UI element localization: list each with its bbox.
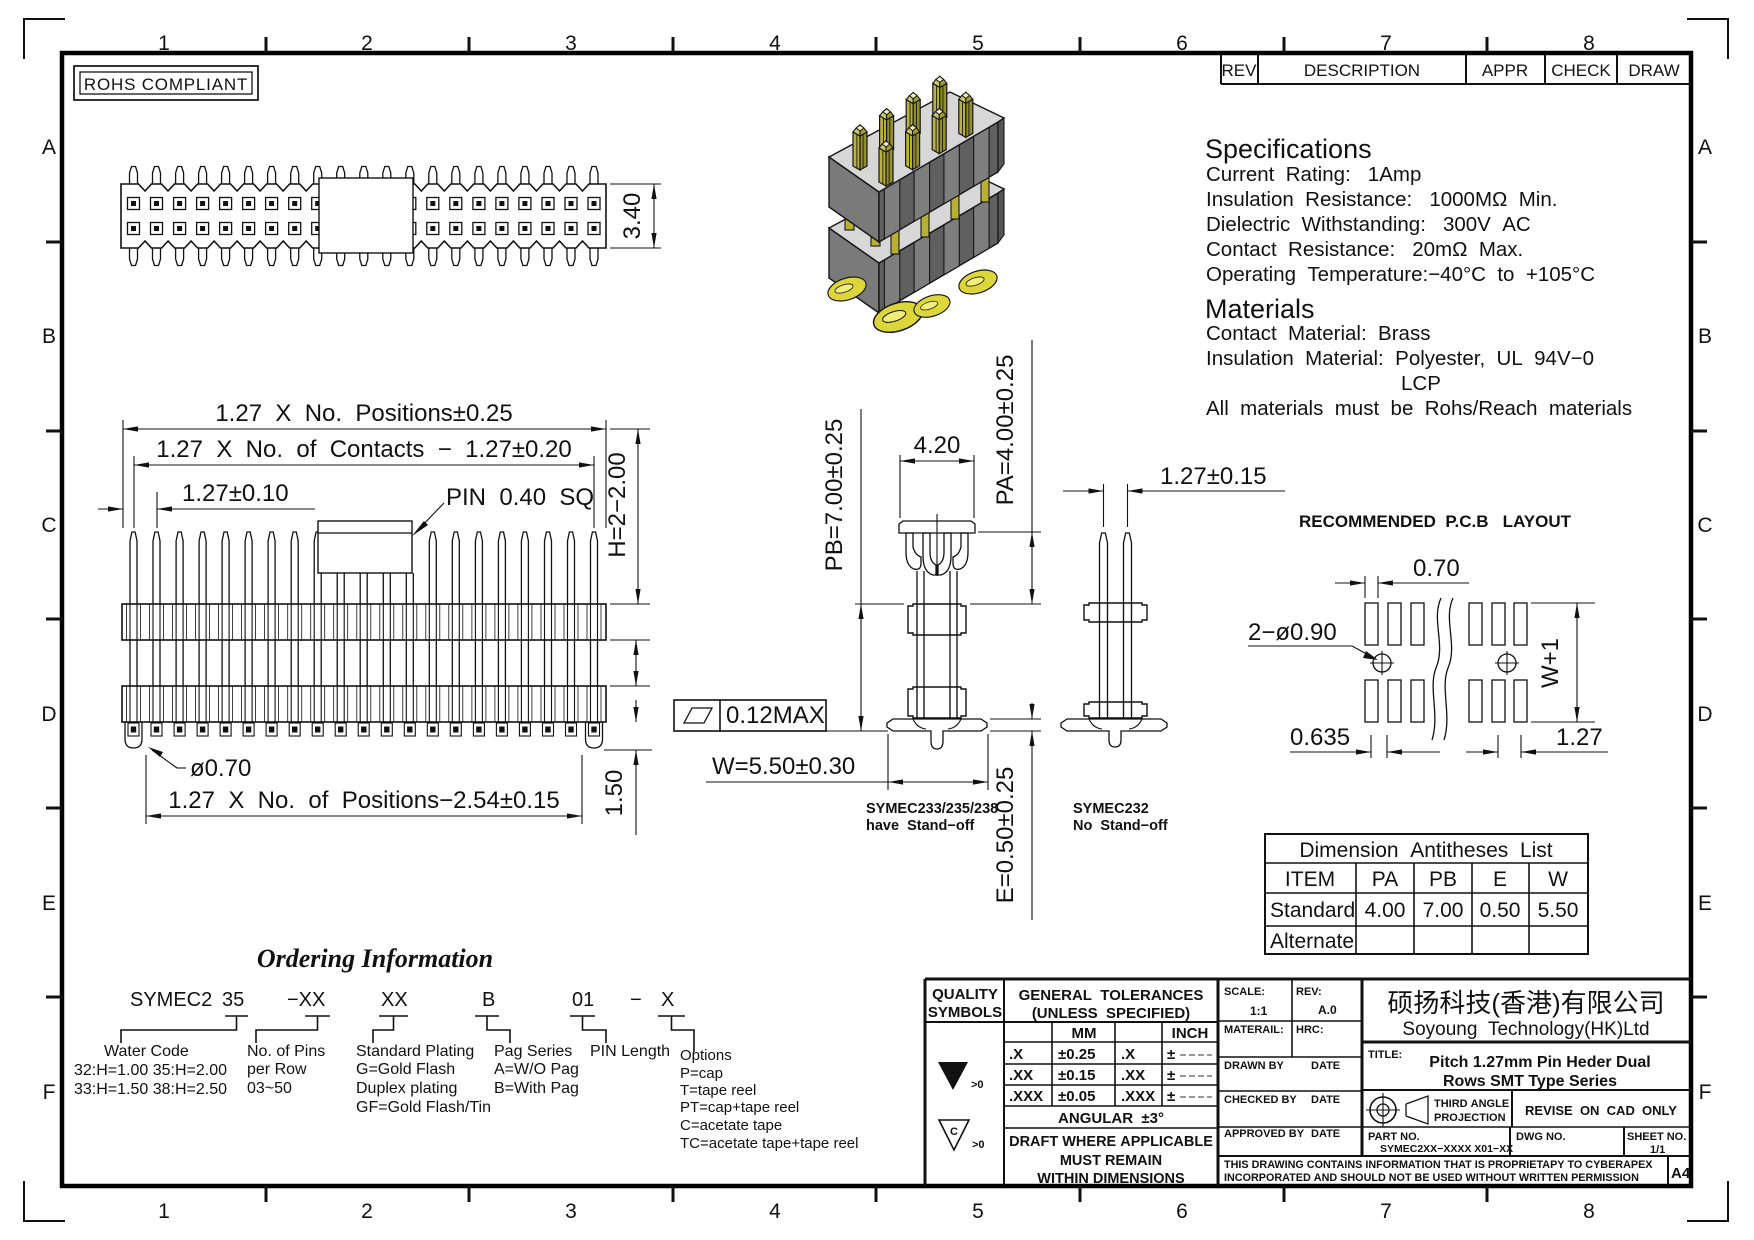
svg-text:THIRD ANGLE: THIRD ANGLE — [1434, 1098, 1509, 1110]
svg-text:REV:: REV: — [1296, 986, 1322, 998]
svg-text:B=With Pag: B=With Pag — [494, 1080, 579, 1097]
dimension W=5.50+/-0.30 — [887, 734, 889, 790]
title block grid — [925, 978, 1691, 981]
svg-text:6: 6 — [1176, 1200, 1188, 1223]
svg-text:REV: REV — [1222, 61, 1258, 80]
front view insulator bands — [122, 604, 606, 640]
svg-text:DATE: DATE — [1311, 1094, 1340, 1106]
side view SYMEC233 cap — [899, 521, 975, 533]
svg-text:8: 8 — [1583, 1200, 1595, 1223]
svg-text:±: ± — [1167, 1046, 1175, 1063]
svg-text:CHECK: CHECK — [1551, 61, 1611, 80]
side view SYMEC233 standoff flange — [887, 719, 987, 749]
svg-text:F: F — [43, 1081, 56, 1104]
label diameter 0.70 with leader — [177, 767, 186, 769]
svg-text:ø0.70: ø0.70 — [190, 755, 251, 782]
svg-text:MM: MM — [1072, 1025, 1097, 1042]
svg-text:Insulation Material: Polyest: Insulation Material: Polyester, UL 94V−0 — [1206, 347, 1594, 370]
svg-text:SYMEC233/235/238: SYMEC233/235/238 — [866, 801, 998, 817]
svg-text:A.0: A.0 — [1318, 1003, 1337, 1017]
svg-text:Standard: Standard — [1270, 899, 1355, 922]
svg-text:DWG NO.: DWG NO. — [1516, 1131, 1566, 1143]
svg-text:2−ø0.90: 2−ø0.90 — [1248, 619, 1337, 646]
svg-text:−XX: −XX — [287, 989, 325, 1011]
dimension 1.27+/-0.15 — [1103, 484, 1105, 527]
svg-text:Soyoung Technology(HK)Ltd: Soyoung Technology(HK)Ltd — [1402, 1019, 1649, 1040]
svg-text:01: 01 — [572, 989, 594, 1011]
side view SYMEC233 lower band — [908, 687, 966, 718]
svg-text:.X: .X — [1009, 1046, 1023, 1063]
svg-text:ITEM: ITEM — [1285, 868, 1335, 891]
svg-text:GENERAL TOLERANCES: GENERAL TOLERANCES — [1019, 987, 1204, 1004]
svg-text:1.27 X No. Positions±0.25: 1.27 X No. Positions±0.25 — [215, 400, 512, 427]
svg-text:Materials: Materials — [1205, 294, 1315, 324]
svg-text:Rows SMT Type Series: Rows SMT Type Series — [1443, 1073, 1617, 1090]
svg-text:6: 6 — [1176, 32, 1188, 55]
svg-text:PART NO.: PART NO. — [1368, 1131, 1420, 1143]
svg-text:Current Rating: 1Amp: Current Rating: 1Amp — [1206, 163, 1421, 186]
svg-text:WITHIN DIMENSIONS: WITHIN DIMENSIONS — [1037, 1171, 1185, 1187]
svg-text:PB=7.00±0.25: PB=7.00±0.25 — [821, 419, 848, 572]
sheet corner trim marks — [24, 19, 65, 59]
svg-text:W: W — [1548, 868, 1568, 891]
svg-text:Contact Material: Brass: Contact Material: Brass — [1206, 322, 1430, 345]
svg-text:No. of Pins: No. of Pins — [247, 1043, 325, 1060]
svg-text:DRAFT WHERE APPLICABLE: DRAFT WHERE APPLICABLE — [1009, 1134, 1213, 1150]
svg-text:W=5.50±0.30: W=5.50±0.30 — [712, 753, 855, 780]
svg-text:SCALE:: SCALE: — [1224, 986, 1265, 998]
svg-text:(UNLESS SPECIFIED): (UNLESS SPECIFIED) — [1032, 1005, 1190, 1022]
svg-text:E: E — [1698, 892, 1712, 915]
svg-text:35: 35 — [222, 989, 244, 1011]
svg-text:Dielectric Withstanding: 30: Dielectric Withstanding: 300V AC — [1206, 213, 1531, 236]
svg-text:1.27 X No. of Contacts −: 1.27 X No. of Contacts − 1.27±0.20 — [156, 436, 571, 463]
svg-text:1.27±0.15: 1.27±0.15 — [1160, 463, 1267, 490]
svg-text:Water Code: Water Code — [104, 1043, 189, 1060]
svg-text:.XXX: .XXX — [1121, 1088, 1155, 1105]
svg-text:C=acetate tape: C=acetate tape — [680, 1117, 782, 1134]
svg-text:ROHS COMPLIANT: ROHS COMPLIANT — [84, 75, 248, 94]
svg-text:INCORPORATED AND SHOULD NOT BE: INCORPORATED AND SHOULD NOT BE USED WITH… — [1224, 1172, 1639, 1184]
svg-text:˃0: ˃0 — [971, 1079, 984, 1091]
svg-text:CHECKED BY: CHECKED BY — [1224, 1094, 1297, 1106]
svg-text:B: B — [1698, 325, 1712, 348]
svg-text:Specifications: Specifications — [1205, 134, 1372, 164]
dimension 1.50 — [604, 749, 652, 751]
svg-text:2: 2 — [361, 1200, 373, 1223]
svg-text:All materials must be Rohs: All materials must be Rohs/Reach materia… — [1206, 397, 1632, 420]
svg-text:Pag Series: Pag Series — [494, 1043, 572, 1060]
svg-text:Standard Plating: Standard Plating — [356, 1043, 474, 1060]
svg-text:per Row: per Row — [247, 1061, 307, 1078]
svg-text:1:1: 1:1 — [1250, 1004, 1268, 1018]
svg-text:T=tape reel: T=tape reel — [680, 1082, 756, 1099]
svg-text:0.635: 0.635 — [1290, 724, 1350, 751]
svg-text:X: X — [661, 989, 674, 1011]
svg-text:PA: PA — [1372, 868, 1398, 891]
svg-text:REVISE ON CAD ONLY: REVISE ON CAD ONLY — [1525, 1103, 1677, 1118]
svg-text:7: 7 — [1380, 1200, 1392, 1223]
svg-text:TITLE:: TITLE: — [1368, 1049, 1402, 1061]
svg-text:±: ± — [1167, 1067, 1175, 1084]
dimension 0.70 pad width — [1364, 576, 1366, 598]
svg-text:Operating Temperature:−40°C: Operating Temperature:−40°C to +105°C — [1206, 263, 1595, 286]
dimension E=0.50+/-0.25 — [990, 718, 1041, 720]
svg-text:Alternate: Alternate — [1270, 930, 1354, 953]
svg-text:4: 4 — [769, 32, 781, 55]
dimension PB=7.00+/-0.25 — [855, 603, 904, 605]
quality symbols — [938, 1062, 968, 1090]
svg-text:QUALITY: QUALITY — [932, 986, 998, 1003]
svg-text:4.00: 4.00 — [1365, 899, 1406, 922]
svg-text:32:H=1.00 35:H=2.00: 32:H=1.00 35:H=2.00 — [74, 1062, 227, 1079]
dimension 1.27 pad pitch — [1497, 735, 1499, 758]
ROHS COMPLIANT label box — [74, 66, 258, 100]
svg-text:8: 8 — [1583, 32, 1595, 55]
svg-text:W+1: W+1 — [1537, 638, 1564, 688]
svg-text:DRAWN BY: DRAWN BY — [1224, 1060, 1285, 1072]
dimension 1.27 x No. Positions +/-0.25 — [122, 420, 124, 528]
svg-text:D: D — [41, 703, 56, 726]
front view pin cap — [318, 521, 412, 573]
svg-text:SYMEC2XX−XXXX X01−XX: SYMEC2XX−XXXX X01−XX — [1380, 1143, 1513, 1155]
dimension PA=4.00+/-0.25 — [978, 531, 1041, 533]
svg-text:B: B — [482, 989, 495, 1011]
svg-text:±: ± — [1167, 1088, 1175, 1105]
svg-text:DATE: DATE — [1311, 1060, 1340, 1072]
svg-text:E: E — [1493, 868, 1507, 891]
svg-text:0.70: 0.70 — [1413, 555, 1460, 582]
svg-text:33:H=1.50 38:H=2.50: 33:H=1.50 38:H=2.50 — [74, 1081, 227, 1098]
svg-text:.XX: .XX — [1009, 1067, 1033, 1084]
side view SYMEC232 flange — [1061, 719, 1167, 747]
svg-text:Insulation Resistance: 1000: Insulation Resistance: 1000MΩ Min. — [1206, 188, 1557, 211]
svg-text:.X: .X — [1121, 1046, 1135, 1063]
svg-text:C: C — [41, 514, 56, 537]
ordering code brackets — [121, 1016, 248, 1043]
svg-text:PT=cap+tape reel: PT=cap+tape reel — [680, 1099, 799, 1116]
dimension W+1 — [1531, 602, 1595, 604]
svg-text:±0.15: ±0.15 — [1058, 1067, 1095, 1084]
svg-text:1: 1 — [158, 32, 170, 55]
svg-text:±0.05: ±0.05 — [1058, 1088, 1095, 1105]
svg-text:TC=acetate tape+tape reel: TC=acetate tape+tape reel — [680, 1135, 858, 1152]
flatness feature control frame 0.12MAX — [674, 700, 826, 731]
svg-text:HRC:: HRC: — [1296, 1024, 1324, 1036]
PCB baseline — [826, 730, 888, 732]
svg-text:Dimension Antitheses List: Dimension Antitheses List — [1299, 839, 1552, 862]
side view SYMEC233 pins through bands — [916, 604, 918, 635]
svg-text:MUST REMAIN: MUST REMAIN — [1060, 1153, 1162, 1169]
svg-text:4.20: 4.20 — [914, 432, 961, 459]
svg-text:3.40: 3.40 — [619, 193, 646, 240]
svg-text:±0.25: ±0.25 — [1058, 1046, 1095, 1063]
svg-text:XX: XX — [381, 989, 408, 1011]
svg-text:C: C — [950, 1126, 958, 1138]
svg-text:DESCRIPTION: DESCRIPTION — [1304, 61, 1420, 80]
svg-text:5.50: 5.50 — [1538, 899, 1579, 922]
dimension 3.40 (top view height) — [610, 183, 661, 185]
svg-text:3: 3 — [565, 1200, 577, 1223]
svg-text:E: E — [42, 892, 56, 915]
svg-text:1.50: 1.50 — [601, 770, 628, 817]
svg-text:SYMBOLS: SYMBOLS — [928, 1004, 1002, 1021]
svg-text:5: 5 — [972, 1200, 984, 1223]
svg-text:Duplex plating: Duplex plating — [356, 1080, 457, 1097]
side view SYMEC232 pins through bands — [1099, 603, 1101, 622]
3D isometric view of dual-row SMT pin header — [829, 228, 879, 313]
side view SYMEC232 pins — [1100, 533, 1108, 719]
svg-text:ANGULAR ±3°: ANGULAR ±3° — [1058, 1110, 1164, 1127]
svg-text:have Stand−off: have Stand−off — [866, 818, 975, 834]
top view of pin header body — [121, 184, 606, 248]
svg-text:−: − — [630, 989, 642, 1011]
svg-text:03~50: 03~50 — [247, 1080, 292, 1097]
side view SYMEC232 lower band — [1084, 702, 1147, 718]
border zone tick marks — [265, 37, 268, 53]
label PIN 0.40 SQ with leader — [417, 503, 444, 531]
dimension 4.20 — [899, 455, 901, 518]
svg-text:A: A — [42, 136, 56, 159]
dimension 0.635 — [1370, 735, 1372, 758]
svg-text:Ordering Information: Ordering Information — [257, 944, 493, 973]
svg-text:Contact Resistance: 20mΩ M: Contact Resistance: 20mΩ Max. — [1206, 238, 1523, 261]
svg-text:1/1: 1/1 — [1650, 1144, 1665, 1156]
svg-text:Pitch 1.27mm Pin Heder Dual: Pitch 1.27mm Pin Heder Dual — [1429, 1054, 1650, 1071]
svg-text:0.50: 0.50 — [1480, 899, 1521, 922]
svg-text:2: 2 — [361, 32, 373, 55]
side view SYMEC232 upper band — [1084, 603, 1147, 622]
svg-text:PIN 0.40 SQ: PIN 0.40 SQ — [446, 484, 594, 511]
svg-text:˃0: ˃0 — [972, 1139, 985, 1151]
svg-text:P=cap: P=cap — [680, 1065, 723, 1082]
svg-text:H=2−2.00: H=2−2.00 — [604, 452, 631, 557]
svg-text:0.12MAX: 0.12MAX — [726, 702, 825, 729]
dimension 1.27 x No. of Positions-2.54+/-0.15 — [145, 755, 147, 824]
svg-text:G=Gold Flash: G=Gold Flash — [356, 1061, 455, 1078]
svg-text:THIS DRAWING CONTAINS INFORMAT: THIS DRAWING CONTAINS INFORMATION THAT I… — [1224, 1159, 1653, 1171]
svg-text:硕扬科技(香港)有限公司: 硕扬科技(香港)有限公司 — [1387, 988, 1664, 1018]
svg-text:A=W/O Pag: A=W/O Pag — [494, 1061, 579, 1078]
svg-text:3: 3 — [565, 32, 577, 55]
svg-text:B: B — [42, 325, 56, 348]
dimension marks between bands — [610, 639, 650, 641]
svg-text:RECOMMENDED P.C.B LAYOUT: RECOMMENDED P.C.B LAYOUT — [1299, 512, 1572, 531]
svg-text:1.27: 1.27 — [1556, 724, 1603, 751]
svg-text:APPROVED BY: APPROVED BY — [1224, 1128, 1305, 1140]
svg-text:DRAW: DRAW — [1628, 61, 1679, 80]
svg-text:1.27±0.10: 1.27±0.10 — [182, 480, 289, 507]
svg-text:SYMEC232: SYMEC232 — [1073, 801, 1149, 817]
svg-text:C: C — [1697, 514, 1712, 537]
third angle projection symbol — [1370, 1097, 1396, 1123]
svg-text:SYMEC2: SYMEC2 — [130, 989, 212, 1011]
dimension 1.27+/-0.10 pitch — [156, 492, 158, 528]
svg-text:7: 7 — [1380, 32, 1392, 55]
top view break rectangle — [319, 178, 413, 253]
svg-text:PA=4.00±0.25: PA=4.00±0.25 — [992, 355, 1019, 506]
svg-text:MATERAIL:: MATERAIL: — [1224, 1024, 1284, 1036]
dimension H=2-2.00 — [610, 428, 650, 430]
front view pins between bands — [129, 640, 131, 686]
front view solder contacts — [128, 723, 139, 736]
svg-text:INCH: INCH — [1172, 1025, 1209, 1042]
svg-text:F: F — [1699, 1081, 1712, 1104]
svg-text:Options: Options — [680, 1047, 732, 1064]
dimension antitheses list table — [1265, 834, 1588, 954]
side view SYMEC233 pins — [916, 571, 918, 718]
svg-text:SHEET NO.: SHEET NO. — [1627, 1131, 1686, 1143]
svg-text:PIN Length: PIN Length — [590, 1043, 670, 1060]
svg-text:APPR: APPR — [1482, 61, 1528, 80]
svg-text:A4: A4 — [1671, 1165, 1691, 1182]
svg-text:5: 5 — [972, 32, 984, 55]
svg-text:GF=Gold Flash/Tin: GF=Gold Flash/Tin — [356, 1099, 491, 1116]
svg-text:LCP: LCP — [1401, 372, 1441, 395]
side view SYMEC233 upper band — [908, 604, 966, 635]
svg-text:1: 1 — [158, 1200, 170, 1223]
svg-text:PROJECTION: PROJECTION — [1434, 1112, 1506, 1124]
svg-text:.XXX: .XXX — [1009, 1088, 1043, 1105]
svg-text:E=0.50±0.25: E=0.50±0.25 — [992, 767, 1019, 904]
front view pins — [130, 532, 137, 604]
svg-text:1.27 X No. of Positions−2.: 1.27 X No. of Positions−2.54±0.15 — [168, 787, 559, 814]
svg-text:4: 4 — [769, 1200, 781, 1223]
svg-text:7.00: 7.00 — [1423, 899, 1464, 922]
svg-text:.XX: .XX — [1121, 1067, 1145, 1084]
svg-text:PB: PB — [1429, 868, 1457, 891]
dimension 1.27 x No. of Contacts - 1.27+/-0.20 — [133, 456, 135, 528]
revision header table — [1221, 83, 1691, 85]
svg-text:A: A — [1698, 136, 1712, 159]
svg-text:DATE: DATE — [1311, 1128, 1340, 1140]
front view rounded locating pins — [125, 722, 142, 748]
svg-text:D: D — [1697, 703, 1712, 726]
svg-text:No Stand−off: No Stand−off — [1073, 818, 1168, 834]
